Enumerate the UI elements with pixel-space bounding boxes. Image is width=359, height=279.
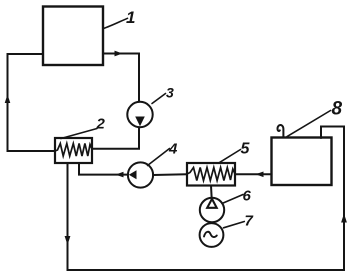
svg-text:3: 3 bbox=[166, 85, 174, 101]
svg-text:8: 8 bbox=[332, 99, 343, 120]
svg-text:7: 7 bbox=[245, 213, 254, 230]
svg-text:4: 4 bbox=[168, 141, 178, 158]
svg-text:1: 1 bbox=[126, 8, 135, 27]
svg-text:2: 2 bbox=[96, 116, 106, 133]
svg-text:6: 6 bbox=[243, 188, 252, 205]
svg-text:5: 5 bbox=[241, 141, 251, 158]
